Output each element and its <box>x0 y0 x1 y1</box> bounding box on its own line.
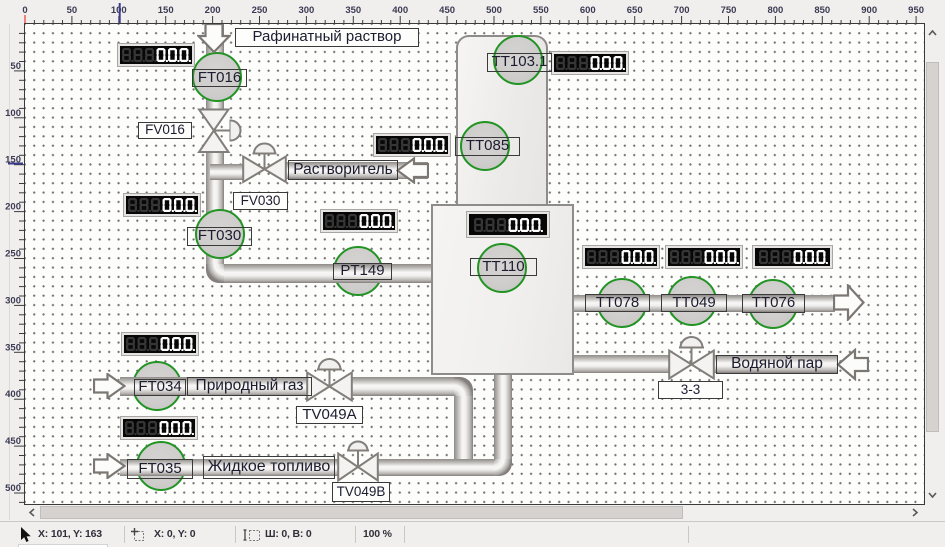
wire: steam pipe after valve behind label <box>713 355 838 373</box>
wire: elbow at FT030 line <box>206 264 225 283</box>
label FT016 <box>192 69 247 87</box>
wire: liquid fuel pipe after valve <box>377 459 494 476</box>
instrument circle PT149 <box>333 246 383 296</box>
wire: solvent pipe behind label <box>285 162 428 179</box>
wire: liquid fuel pipe to valve TV049B <box>120 459 339 476</box>
inlet arrow liquid fuel <box>93 453 126 479</box>
display PT149 <box>321 210 397 232</box>
wire: tee branch to FV030 <box>210 164 244 180</box>
label Природный газ <box>187 377 312 396</box>
svg-text:550: 550 <box>533 5 549 16</box>
wire: elbow liquid line to riser <box>494 459 512 476</box>
valve FV030 <box>242 142 287 184</box>
label Водяной пар <box>716 355 838 374</box>
display TT085 <box>374 134 450 156</box>
svg-text:200: 200 <box>205 5 221 16</box>
svg-text:800: 800 <box>767 5 783 16</box>
svg-text:750: 750 <box>721 5 737 16</box>
wire: natural gas pipe after valve <box>352 377 454 396</box>
inlet arrow natural gas <box>93 373 126 399</box>
svg-text:300: 300 <box>298 5 314 16</box>
instrument circle TT078 <box>597 278 647 328</box>
display FT016 <box>118 44 194 66</box>
wire: natural gas pipe to valve TV049A <box>120 377 311 396</box>
instrument circle TT049 <box>667 276 717 326</box>
label 3-3 <box>658 381 723 399</box>
label FV030 <box>233 192 288 210</box>
label FT030 <box>187 227 252 246</box>
svg-text:450: 450 <box>5 436 21 447</box>
svg-text:300: 300 <box>5 295 21 306</box>
instrument circle TT110 <box>477 243 527 293</box>
svg-text:950: 950 <box>908 5 924 16</box>
wire: steam pipe furnace to valve 3-3 <box>573 355 670 373</box>
status bar <box>0 521 945 547</box>
label TV049B <box>332 482 390 502</box>
label FT035 <box>127 459 193 479</box>
svg-text:350: 350 <box>5 342 21 353</box>
label PT149 <box>333 263 392 280</box>
valve TV049A <box>306 358 353 402</box>
instrument circle FT030 <box>195 209 245 259</box>
display FT034 <box>122 333 198 355</box>
label TT103.1 <box>487 53 552 72</box>
label TV049A <box>296 406 363 424</box>
display TT049 <box>666 246 742 268</box>
svg-text:250: 250 <box>5 249 21 260</box>
svg-text:900: 900 <box>861 5 877 16</box>
svg-text:400: 400 <box>5 389 21 400</box>
label TT085 <box>455 137 520 156</box>
wire: TT078/049/076 outlet pipe <box>573 295 835 312</box>
display FT030 <box>124 194 200 216</box>
svg-text:200: 200 <box>5 202 21 213</box>
svg-text:100: 100 <box>5 108 21 119</box>
instrument circle TT076 <box>748 279 798 329</box>
svg-text:850: 850 <box>814 5 830 16</box>
svg-text:500: 500 <box>5 483 21 494</box>
label FV016 <box>138 122 192 139</box>
svg-text:50: 50 <box>67 5 78 16</box>
wire: liquid fuel riser into furnace <box>494 374 512 459</box>
wire: vertical pipe from FV016 down to elbow <box>206 151 224 265</box>
label Рафинатный раствор <box>235 28 419 47</box>
label TT076 <box>742 294 805 313</box>
label TT110 <box>470 258 537 276</box>
svg-text:600: 600 <box>580 5 596 16</box>
wire: horizontal pipe FT030 elbow to furnace (PT149 line) <box>224 264 433 283</box>
right scrollbar <box>926 24 939 504</box>
svg-text:700: 700 <box>674 5 690 16</box>
left ruler <box>0 0 25 547</box>
display TT078 <box>583 246 659 268</box>
wire: elbow gas line turning down <box>454 377 473 396</box>
display FT035 <box>121 417 197 439</box>
wire: gas line vertical drop <box>454 396 473 470</box>
svg-text:500: 500 <box>486 5 502 16</box>
label Жидкое топливо <box>203 456 335 479</box>
furnace <box>431 204 574 375</box>
valve 3-3 <box>668 336 715 380</box>
instrument circle FT016 <box>192 52 242 102</box>
inlet arrow (down) rafinate <box>197 24 231 53</box>
display TT110 <box>467 212 549 237</box>
bottom scrollbar <box>25 506 925 519</box>
svg-text:400: 400 <box>392 5 408 16</box>
svg-text:250: 250 <box>252 5 268 16</box>
inlet arrow solvent (left) <box>396 157 429 184</box>
instrument circle FT034 <box>132 361 182 411</box>
instrument circle FT035 <box>136 441 186 491</box>
valve TV049B <box>337 439 379 482</box>
valve FV016 <box>197 108 245 154</box>
instrument circle TT103.1 <box>493 35 543 85</box>
top ruler <box>0 0 945 24</box>
left edge panel line <box>9 24 10 520</box>
instrument circle TT085 <box>460 121 510 171</box>
label Растворитель <box>288 160 398 180</box>
label FT034 <box>134 379 186 396</box>
wire: vertical pipe from top inlet to valve FV016 <box>206 24 224 110</box>
display TT076 <box>753 246 832 268</box>
svg-text:350: 350 <box>345 5 361 16</box>
svg-text:150: 150 <box>158 5 174 16</box>
svg-text:650: 650 <box>627 5 643 16</box>
outlet arrow TT line <box>833 284 865 321</box>
label TT049 <box>661 294 727 312</box>
vessel column <box>456 35 548 209</box>
display TT103.1 <box>552 52 628 74</box>
inlet arrow steam (left) <box>836 348 869 381</box>
label TT078 <box>585 294 650 312</box>
svg-text:450: 450 <box>439 5 455 16</box>
svg-text:50: 50 <box>10 61 21 72</box>
